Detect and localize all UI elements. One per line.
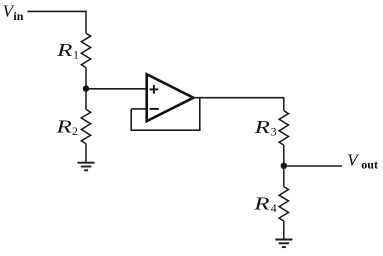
wire R3 to node B: [283, 145, 285, 166]
wire node B to Vout: [284, 165, 342, 167]
svg-text:1: 1: [73, 48, 79, 62]
resistor R3: [279, 111, 288, 145]
wire R1 to node A: [85, 68, 87, 89]
resistor R4: [279, 187, 288, 221]
wire R4 to ground: [283, 221, 285, 239]
svg-text:R: R: [56, 40, 73, 60]
wire node A down to R2: [85, 89, 87, 110]
wire - input stub: [131, 108, 147, 110]
svg-text:out: out: [361, 157, 378, 171]
ground (left): [78, 163, 95, 171]
wire R2 to ground: [85, 144, 87, 163]
wire Vin vertical to R1: [85, 11, 87, 34]
svg-text:4: 4: [271, 201, 277, 215]
node B junction dot: [281, 163, 287, 169]
ground (right): [275, 240, 292, 248]
op-amp - input marker: [150, 108, 159, 110]
svg-text:R: R: [253, 117, 270, 137]
wire op-amp output: [193, 97, 283, 99]
svg-text:2: 2: [72, 124, 78, 138]
wire Vin horizontal: [28, 10, 87, 12]
svg-text:R: R: [55, 116, 72, 136]
svg-text:3: 3: [271, 124, 277, 138]
wire feedback loop: [131, 98, 200, 131]
svg-text:in: in: [13, 9, 23, 23]
wire node A to op-amp + input: [86, 88, 147, 90]
node A junction dot: [83, 85, 89, 91]
svg-text:V: V: [347, 151, 360, 170]
op-amp U1: [147, 74, 194, 121]
wire down to R3: [283, 97, 285, 111]
resistor R1: [81, 33, 90, 67]
svg-text:R: R: [253, 193, 270, 213]
resistor R2: [81, 109, 90, 143]
wire node B down to R4: [283, 166, 285, 187]
op-amp + input marker: [150, 85, 159, 94]
